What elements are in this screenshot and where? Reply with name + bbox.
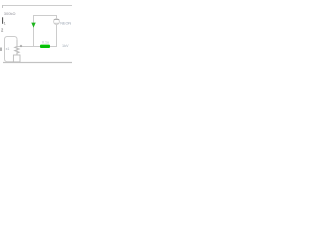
svg-text:1: 1 (4, 21, 6, 25)
svg-text:300kΩ: 300kΩ (4, 11, 16, 16)
svg-text:NEON: NEON (60, 22, 71, 26)
svg-text:1kV: 1kV (62, 44, 69, 48)
svg-text:0.1u: 0.1u (42, 40, 49, 44)
svg-text:x1: x1 (6, 47, 10, 51)
